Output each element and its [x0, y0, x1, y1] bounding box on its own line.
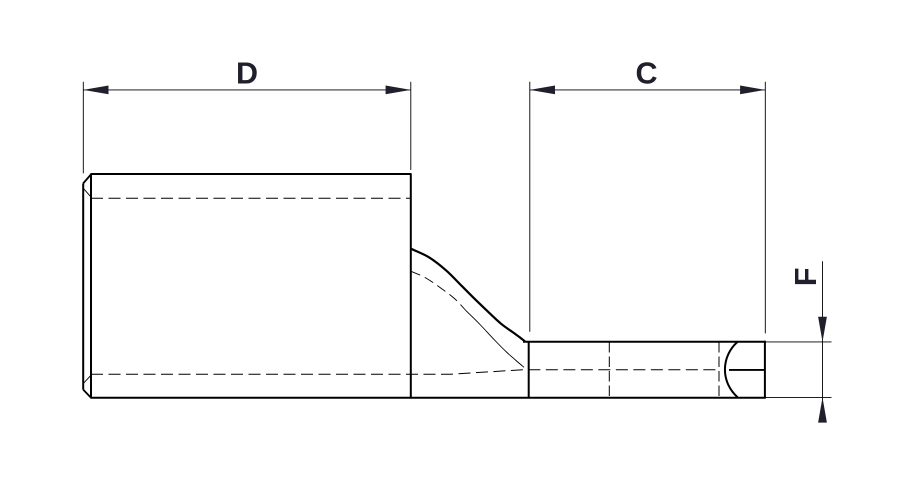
svg-text:F: F — [789, 267, 823, 286]
barrel left face line — [90, 173, 92, 398]
dimension C arrow left — [530, 86, 555, 95]
palm left edge line — [528, 342, 530, 398]
palm hidden vertical line 1 — [608, 342, 610, 398]
barrel chamfer bottom diagonal — [83, 390, 91, 398]
svg-text:C: C — [635, 57, 657, 91]
S-bend inner curve hidden part — [411, 271, 466, 310]
barrel right edge — [410, 173, 412, 398]
dimension F line — [822, 261, 824, 422]
bore hidden line top — [91, 197, 410, 199]
palm right edge — [764, 341, 766, 398]
barrel chamfer top diagonal — [83, 174, 91, 183]
dimension F arrow bottom — [818, 397, 827, 422]
palm top edge — [523, 341, 766, 343]
dimension D extension line right — [410, 82, 412, 170]
dimension D extension line left — [82, 82, 84, 174]
bore flare hidden diagonal bottom-left — [84, 375, 91, 383]
bore hidden line bottom — [91, 370, 717, 375]
dimension F arrow top — [818, 317, 827, 342]
dimension C line — [530, 89, 766, 91]
dimension D arrow right — [386, 86, 411, 95]
dimension F extension line bottom — [766, 396, 832, 398]
bore flare hidden diagonal top-left — [84, 189, 91, 197]
dimension D line — [83, 89, 411, 91]
dimension C extension line left — [529, 82, 531, 332]
dimension C extension line right — [764, 82, 766, 334]
S-bend inner curve visible part — [466, 311, 524, 368]
barrel top edge — [91, 173, 411, 175]
barrel chamfer outer vertical — [82, 183, 84, 389]
palm tip mid line — [729, 369, 765, 371]
S-bend outer curve — [411, 249, 525, 341]
svg-text:D: D — [236, 57, 258, 91]
barrel bottom edge (runs full length to palm tip) — [91, 397, 766, 399]
dimension D arrow left — [83, 86, 108, 95]
dimension C arrow right — [740, 86, 765, 95]
palm tip arc — [725, 342, 738, 397]
dimension F extension line top — [766, 341, 832, 343]
palm hidden vertical line 2 — [718, 342, 720, 398]
